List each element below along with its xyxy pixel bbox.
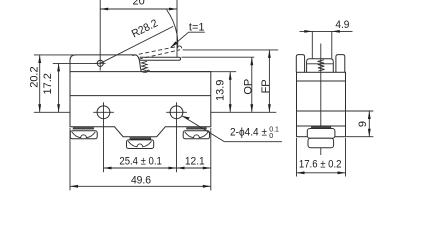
svg-text:12.1: 12.1 (185, 156, 205, 168)
svg-text:25.4 ± 0.1: 25.4 ± 0.1 (119, 155, 161, 167)
plunger inner chord (307, 63, 333, 65)
side view plunger block (307, 59, 334, 73)
FP reference line (183, 49, 279, 51)
dimension 9 (346, 110, 374, 112)
dimension 20.2 (34, 54, 76, 56)
side view centerline (320, 44, 322, 156)
mounting hole left (97, 106, 110, 119)
side view ear left (296, 55, 304, 73)
dimension 13.9 (211, 71, 236, 73)
terminal T3 clamp (183, 131, 209, 139)
svg-text:4.9: 4.9 (335, 19, 349, 31)
switch body outline (front view) (70, 55, 211, 137)
svg-text:9: 9 (357, 121, 369, 127)
svg-text:13.9: 13.9 (215, 80, 227, 101)
svg-text:17.6 ± 0.2: 17.6 ± 0.2 (299, 158, 342, 170)
spring (front view) (142, 61, 148, 71)
pivot circle (97, 60, 103, 66)
side view seam 2 / hole line (297, 110, 346, 112)
lever free position lower dashed line (139, 50, 180, 60)
side view seam 3 (297, 125, 346, 127)
dimension 20 (99, 0, 101, 71)
dimension OP (251, 57, 253, 112)
leader R28.2 (100, 26, 173, 63)
side view ear right (336, 55, 345, 73)
dimension 4.9 (311, 31, 313, 58)
side view seam 1 (297, 80, 346, 82)
terminal T2 plate (130, 138, 151, 140)
dimension 25.4 (104, 167, 177, 169)
svg-text:FP: FP (260, 79, 272, 93)
body seam line upper (70, 71, 211, 73)
terminal T2 clamp (127, 140, 154, 149)
mounting hole right (170, 106, 183, 119)
dimension 49.6 (69, 128, 71, 190)
side terminal screw lower (308, 138, 334, 147)
dimension 17.2 (53, 62, 97, 64)
svg-text:20.2: 20.2 (29, 66, 41, 87)
dimension FP (268, 50, 270, 112)
svg-text:20: 20 (132, 0, 144, 7)
dimension 12.1 (177, 167, 211, 169)
lever swing arc (167, 10, 178, 49)
side view body (297, 72, 346, 136)
terminal T3 plate (187, 128, 207, 130)
body seam line lower (70, 95, 211, 97)
side terminal plate (311, 127, 330, 129)
svg-text:0: 0 (269, 133, 273, 140)
spring (side view) (318, 60, 325, 71)
leader 2-phi4.4 (182, 116, 190, 120)
svg-text:49.6: 49.6 (131, 174, 151, 186)
lever free position tip arc (179, 46, 182, 50)
side terminal screw head (307, 129, 335, 139)
dimension 17.6 (296, 138, 298, 177)
svg-text:17.2: 17.2 (42, 73, 54, 94)
svg-text:2-ϕ4.4 ±: 2-ϕ4.4 ± (230, 126, 267, 138)
OP reference line (182, 56, 255, 58)
terminal T1 plate (73, 128, 94, 130)
svg-text:OP: OP (242, 79, 254, 95)
lever free position upper dashed line (132, 46, 179, 56)
lever (operating position, solid) (140, 57, 181, 60)
terminal T1 clamp (70, 131, 97, 139)
pivot crosshair horizontal (95, 62, 105, 64)
